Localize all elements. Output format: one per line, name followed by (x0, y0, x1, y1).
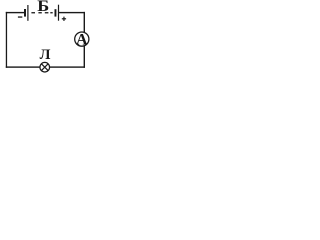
battery Б minus sign (18, 16, 22, 17)
ammeter A circle (75, 32, 89, 46)
svg-text:Л: Л (40, 47, 51, 63)
svg-text:А: А (76, 32, 88, 49)
wire bottom-left segment (6, 66, 40, 67)
battery Б dashed middle (omitted cells) (31, 12, 52, 13)
battery Б plus sign (62, 17, 66, 21)
wire left side (6, 12, 7, 68)
wire top-right segment (59, 12, 85, 13)
wire bottom-right segment (50, 66, 85, 67)
wire top-left segment (6, 12, 24, 13)
battery Б cell1 short plate (24, 9, 26, 17)
battery Б cell2 short plate (55, 9, 57, 16)
lamp Л cross diagonal 1 (41, 64, 48, 71)
svg-text:Б: Б (37, 0, 49, 15)
battery Б cell2 long plate (58, 5, 59, 21)
wire right side lower (84, 46, 85, 68)
wire right side upper (84, 12, 85, 32)
battery Б cell1 long plate (27, 5, 28, 21)
lamp Л circle (40, 62, 50, 72)
lamp Л cross diagonal 2 (41, 64, 48, 71)
